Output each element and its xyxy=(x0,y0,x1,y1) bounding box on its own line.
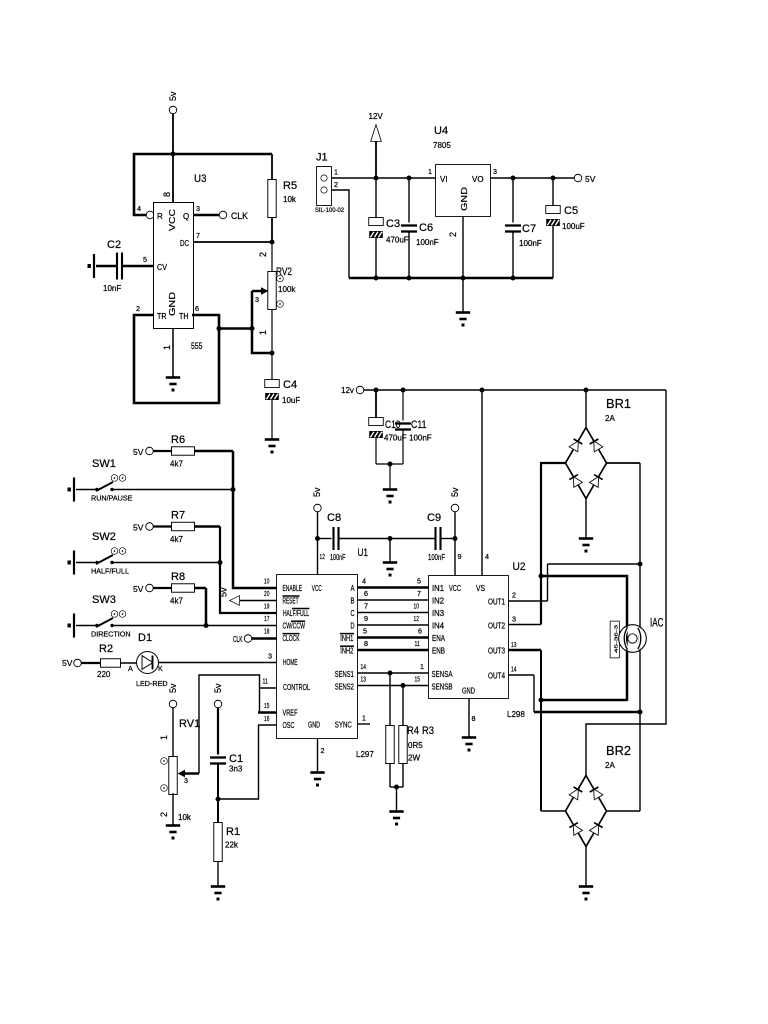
ground U2 xyxy=(462,738,476,752)
svg-text:11: 11 xyxy=(415,639,420,648)
svg-text:SENSA: SENSA xyxy=(432,670,454,679)
svg-text:CW/CCW: CW/CCW xyxy=(283,622,306,631)
junction GND rail xyxy=(461,276,466,281)
wire BR1 left xyxy=(541,462,566,464)
capacitor C10 xyxy=(369,418,383,438)
wire OUT3 to BR2 left xyxy=(540,650,542,811)
svg-text:CLK: CLK xyxy=(233,635,243,644)
svg-text:10k: 10k xyxy=(283,195,297,204)
svg-text:HALF/FULL: HALF/FULL xyxy=(283,609,309,618)
svg-text:7: 7 xyxy=(364,602,368,611)
svg-text:22k: 22k xyxy=(225,841,239,850)
wire OUT4 xyxy=(508,674,534,676)
junction OUT1/BR1/motor xyxy=(638,562,643,567)
wire motor right side xyxy=(639,564,641,712)
terminal 5V C1 xyxy=(215,701,222,708)
ground C4 xyxy=(265,440,279,454)
wire C9 to 5V xyxy=(441,538,456,540)
svg-text:R8: R8 xyxy=(171,571,185,583)
svg-text:5v: 5v xyxy=(312,487,322,497)
wire to C4 xyxy=(271,353,273,380)
svg-text:5V: 5V xyxy=(133,447,144,457)
svg-text:R3: R3 xyxy=(422,725,434,737)
terminal mark RV2 top xyxy=(277,276,283,282)
svg-text:C1: C1 xyxy=(229,753,243,765)
svg-text:12: 12 xyxy=(320,552,325,561)
svg-text:220: 220 xyxy=(97,670,111,679)
svg-text:10k: 10k xyxy=(178,813,192,822)
wire to C7 xyxy=(512,178,514,223)
svg-text:OUT4: OUT4 xyxy=(488,672,506,681)
junction VS riser xyxy=(480,388,485,393)
svg-text:100nF: 100nF xyxy=(416,238,439,247)
svg-text:K: K xyxy=(158,664,163,673)
svg-text:BR1: BR1 xyxy=(606,396,631,411)
svg-text:4k7: 4k7 xyxy=(170,460,183,469)
svg-text:3: 3 xyxy=(255,295,259,304)
svg-text:C3: C3 xyxy=(386,218,400,230)
svg-text:OUT3: OUT3 xyxy=(488,647,505,656)
wire C2 to U3 CV pin 5 xyxy=(123,265,154,267)
resistor R2 xyxy=(101,659,120,667)
wire BR1 to ground xyxy=(585,498,587,538)
wire C1 to R1 xyxy=(217,764,219,824)
wire R7 to drop xyxy=(194,525,220,528)
svg-text:VI: VI xyxy=(440,175,448,184)
svg-text:3: 3 xyxy=(493,167,497,176)
wire 5V terminal to U3 VCC pin 8 xyxy=(172,114,174,203)
svg-text:ENABLE: ENABLE xyxy=(283,584,303,593)
svg-text:2W: 2W xyxy=(408,754,420,763)
terminal 5V C8 xyxy=(314,505,321,512)
svg-text:4k7: 4k7 xyxy=(170,535,183,544)
svg-text:7805: 7805 xyxy=(433,141,451,150)
svg-text:10uF: 10uF xyxy=(282,396,300,405)
svg-text:U1: U1 xyxy=(358,547,369,559)
wire U1 GND pin 2 xyxy=(317,738,319,772)
svg-text:2: 2 xyxy=(512,591,516,600)
junction R6/SW1 xyxy=(231,487,236,492)
capacitor C9 xyxy=(436,527,441,550)
terminal mark SW1 a xyxy=(112,475,118,481)
svg-text:2: 2 xyxy=(448,232,458,237)
svg-text:1: 1 xyxy=(334,168,338,177)
wire to C8 xyxy=(318,538,332,540)
svg-text:4: 4 xyxy=(485,552,489,561)
terminal CLK in xyxy=(245,635,252,642)
junction C7 top xyxy=(511,176,516,181)
svg-text:OUT1: OUT1 xyxy=(488,598,505,607)
wire R4/R3 join xyxy=(390,786,403,788)
switch SW2 xyxy=(95,555,113,564)
svg-text:GND: GND xyxy=(459,187,469,211)
ground RV1 xyxy=(166,826,180,840)
svg-text:IN2: IN2 xyxy=(432,597,444,606)
capacitor C2 xyxy=(117,253,122,280)
wire to BR2 right xyxy=(639,712,641,811)
svg-text:5V: 5V xyxy=(585,174,596,184)
wire rail to U3 pin 4 R xyxy=(134,153,146,215)
wire BR2 right xyxy=(606,810,640,812)
resistor R5 xyxy=(268,180,276,217)
wire C3 to rail xyxy=(375,238,377,278)
svg-text:R5: R5 xyxy=(283,180,297,192)
svg-text:CLOCK: CLOCK xyxy=(283,634,300,643)
junction C10/C11 ground xyxy=(388,462,393,467)
wire SENS1 to SENSA xyxy=(357,672,429,674)
resistor R1 xyxy=(214,823,222,861)
ground R1 xyxy=(211,887,225,901)
wire rail to R5 xyxy=(271,154,273,180)
svg-text:SW2: SW2 xyxy=(92,531,116,543)
ground U4 xyxy=(456,313,470,327)
junction OUT4/motor xyxy=(638,710,643,715)
svg-text:20: 20 xyxy=(264,589,269,598)
wire OUT4 riser xyxy=(533,675,535,712)
ground R4/R3 xyxy=(389,812,403,826)
svg-text:R4: R4 xyxy=(407,725,419,737)
wire C5 to rail xyxy=(552,226,554,278)
svg-text:SW1: SW1 xyxy=(92,458,116,470)
svg-text:6: 6 xyxy=(364,589,368,598)
svg-text:9: 9 xyxy=(458,552,462,561)
terminal mark SW3 b xyxy=(120,611,126,617)
svg-text:2: 2 xyxy=(258,252,268,257)
svg-text:CLK: CLK xyxy=(231,211,248,221)
capacitor C4 xyxy=(265,380,279,400)
svg-text:C11: C11 xyxy=(411,419,427,431)
potentiometer RV2 body xyxy=(268,272,276,309)
junction R7/SW2 xyxy=(218,560,223,565)
terminal 5V R8 xyxy=(146,585,153,592)
wire C10 bottom xyxy=(375,438,377,464)
junction RV2/C4 xyxy=(270,351,275,356)
IC U1 L297 body xyxy=(277,575,357,738)
junction OUT2/motor top xyxy=(539,574,544,579)
svg-text:2: 2 xyxy=(321,746,325,755)
svg-text:D: D xyxy=(351,622,355,631)
wire BR1 left riser xyxy=(540,462,542,625)
wire OUT4 to BR2 right net xyxy=(534,711,640,714)
svg-text:5: 5 xyxy=(417,577,421,586)
svg-text:5V: 5V xyxy=(133,584,144,594)
wire to decoupling ground xyxy=(389,539,391,563)
wire PSU ground rail xyxy=(349,277,553,279)
stub U1 VREF pin 15 xyxy=(258,711,277,714)
junction OUT3/motor xyxy=(539,698,544,703)
input stub C2 xyxy=(88,254,95,278)
wire reset marker to U1 pin 20 xyxy=(240,600,278,602)
svg-text:C4: C4 xyxy=(283,379,297,391)
svg-text:1: 1 xyxy=(162,345,172,350)
svg-text:BR2: BR2 xyxy=(606,743,631,758)
svg-text:OUT2: OUT2 xyxy=(488,622,505,631)
svg-text:SYNC: SYNC xyxy=(335,721,352,730)
svg-text:0R5: 0R5 xyxy=(408,741,423,750)
wire to C10 xyxy=(375,390,377,418)
RV1 wiper arrow xyxy=(181,772,199,775)
wire CLK to U1 pin 18 xyxy=(252,637,278,640)
stub U1 OSC pin 16 xyxy=(258,724,277,726)
wire C11 bottom xyxy=(402,430,404,465)
wire BR2 left xyxy=(541,810,566,812)
svg-text:16: 16 xyxy=(264,714,269,723)
svg-text:100nF: 100nF xyxy=(330,553,346,562)
svg-text:5v: 5v xyxy=(168,91,178,101)
wire U4 GND pin to ground xyxy=(462,216,464,312)
ground C8/C9 xyxy=(383,563,397,577)
svg-text:DC: DC xyxy=(180,239,189,248)
power arrow 12V xyxy=(375,140,377,178)
svg-text:VCC: VCC xyxy=(449,584,461,593)
IC U2 L298 body xyxy=(429,576,508,698)
wire SENS2 to R3 xyxy=(402,686,404,727)
wire R2 to D1 xyxy=(120,662,137,664)
svg-text:6: 6 xyxy=(418,627,422,636)
svg-text:12v: 12v xyxy=(341,386,354,395)
svg-text:7: 7 xyxy=(196,231,200,240)
terminal 5V out xyxy=(575,175,582,182)
wire OUT1 riser xyxy=(547,564,549,601)
junction C8 left xyxy=(315,536,320,541)
junction C10 xyxy=(374,388,379,393)
wire U3 DC to R5/RV2 node xyxy=(193,241,272,243)
svg-text:8: 8 xyxy=(162,192,172,197)
svg-text:5: 5 xyxy=(143,255,147,264)
svg-text:C7: C7 xyxy=(522,223,536,235)
wire motor phase A top xyxy=(541,576,627,701)
terminal 5V R7 xyxy=(146,523,153,530)
wire to C6 xyxy=(408,178,410,223)
svg-text:C: C xyxy=(351,609,355,618)
svg-text:45-36-3: 45-36-3 xyxy=(613,624,618,653)
svg-text:SW3: SW3 xyxy=(92,594,116,606)
ground C10/C11 xyxy=(383,490,397,504)
LED D1 xyxy=(137,652,158,673)
wire RV1 wiper to U1 VREF xyxy=(199,675,260,774)
wire R8 to drop xyxy=(194,587,206,590)
svg-text:100nF: 100nF xyxy=(409,434,432,443)
junction SENS2/R3 xyxy=(401,683,406,688)
svg-text:VCC: VCC xyxy=(312,584,322,593)
svg-text:3: 3 xyxy=(512,615,516,624)
svg-text:ENB: ENB xyxy=(432,647,445,656)
svg-text:1: 1 xyxy=(428,167,432,176)
wire J1 pin2 to ground rail xyxy=(331,190,349,278)
junction C6 bottom xyxy=(407,276,412,281)
wire U2 GND pin 8 xyxy=(468,698,470,737)
wire stub to SW3 xyxy=(76,625,96,627)
stub U1 SYNC pin 1 xyxy=(357,723,370,725)
svg-text:DIRECTION: DIRECTION xyxy=(91,630,131,639)
junction C3 bottom xyxy=(374,276,379,281)
wire R8 drop xyxy=(205,588,208,626)
input stub SW2 xyxy=(68,551,75,575)
wire RV2 pin 1 xyxy=(271,310,273,353)
svg-text:2: 2 xyxy=(159,812,169,817)
junction C7 bottom xyxy=(511,276,516,281)
ground U1 xyxy=(310,773,324,787)
wire R1 to ground xyxy=(217,861,219,886)
wire stub to SW2 xyxy=(76,562,96,564)
svg-text:7: 7 xyxy=(417,589,421,598)
svg-text:HOME: HOME xyxy=(283,658,298,667)
bridge rectifier BR2 xyxy=(566,776,607,847)
svg-text:4: 4 xyxy=(362,577,366,586)
svg-text:2A: 2A xyxy=(605,414,615,423)
svg-text:5V: 5V xyxy=(133,523,144,533)
wire to ground C10/C11 xyxy=(389,464,391,489)
svg-text:3n3: 3n3 xyxy=(229,765,243,774)
wire 12v to BR2 top xyxy=(586,390,666,776)
svg-text:GND: GND xyxy=(308,721,320,730)
svg-text:1: 1 xyxy=(258,330,268,335)
switch SW3 xyxy=(95,618,113,627)
svg-text:CONTROL: CONTROL xyxy=(283,683,310,692)
wire R4 bottom xyxy=(389,763,391,787)
wire A to IN1 xyxy=(357,586,429,589)
capacitor C5 xyxy=(546,206,560,226)
svg-text:Q: Q xyxy=(183,212,189,221)
wire R3 bottom xyxy=(402,763,404,787)
svg-text:3: 3 xyxy=(268,652,272,661)
bridge rectifier BR1 xyxy=(566,428,607,499)
resistor R6 xyxy=(172,447,194,455)
svg-text:R1: R1 xyxy=(226,826,240,838)
svg-text:12: 12 xyxy=(414,614,419,623)
svg-text:15: 15 xyxy=(415,675,420,684)
svg-text:C2: C2 xyxy=(107,239,121,251)
svg-text:SENS2: SENS2 xyxy=(335,683,354,692)
J1 pin circles xyxy=(321,175,327,181)
resistor R8 xyxy=(172,584,194,592)
svg-text:U3: U3 xyxy=(194,173,207,185)
svg-text:VS: VS xyxy=(476,584,485,593)
terminal mark SW1 b xyxy=(120,475,126,481)
svg-text:RV1: RV1 xyxy=(179,718,200,730)
wire SW1 to junction xyxy=(112,489,233,491)
svg-text:C8: C8 xyxy=(327,512,341,524)
svg-text:100uF: 100uF xyxy=(562,222,585,231)
svg-text:13: 13 xyxy=(511,640,516,649)
resistor R7 xyxy=(172,523,194,531)
svg-text:13: 13 xyxy=(361,675,366,684)
wire 12v to U2 VS pin 4 xyxy=(481,390,483,576)
terminal 5V (555 supply) xyxy=(170,107,177,114)
terminal mark RV2 bottom xyxy=(277,301,283,307)
svg-text:8: 8 xyxy=(472,714,476,723)
svg-text:R2: R2 xyxy=(99,643,113,655)
svg-text:IN1: IN1 xyxy=(432,584,444,593)
svg-text:C6: C6 xyxy=(419,222,433,234)
wire C4 to ground xyxy=(271,400,273,439)
svg-text:5v: 5v xyxy=(219,587,229,597)
svg-text:18: 18 xyxy=(264,627,269,636)
capacitor C8 xyxy=(334,527,339,550)
svg-text:C9: C9 xyxy=(427,512,441,524)
svg-text:LED-RED: LED-RED xyxy=(136,679,168,688)
svg-text:SENS1: SENS1 xyxy=(335,670,354,679)
wire VCC top rail xyxy=(133,153,272,156)
svg-text:J1: J1 xyxy=(316,152,328,164)
junction 12V/C3 xyxy=(374,176,379,181)
wire 5V to U2 VCC pin 9 xyxy=(454,512,456,576)
ground BR2 xyxy=(579,887,593,901)
junction C1/R1/OSC xyxy=(216,797,221,802)
wire J1 pin1 to U4 VI xyxy=(331,177,436,179)
RV2 wiper arrow xyxy=(252,290,265,293)
svg-text:4k7: 4k7 xyxy=(170,597,183,606)
junction DC node xyxy=(270,240,275,245)
svg-text:ENA: ENA xyxy=(432,634,446,643)
resistor R3 xyxy=(399,726,407,763)
svg-text:1: 1 xyxy=(420,662,424,671)
svg-text:C5: C5 xyxy=(564,205,578,217)
wire to C5 xyxy=(552,178,554,206)
svg-text:RV2: RV2 xyxy=(276,266,292,278)
svg-text:9: 9 xyxy=(364,614,368,623)
junction BR1 top xyxy=(584,388,589,393)
wire DC node to RV2 pin 2 xyxy=(271,242,273,272)
wire B to IN2 xyxy=(357,599,429,601)
junction C6 xyxy=(407,176,412,181)
wire D to IN4 xyxy=(357,624,429,626)
junction decoupling ground xyxy=(388,536,393,541)
svg-text:10nF: 10nF xyxy=(103,284,121,293)
svg-text:D1: D1 xyxy=(138,632,152,644)
svg-text:100nF: 100nF xyxy=(428,553,445,562)
junction R4/R3 ground xyxy=(394,785,399,790)
svg-text:TR: TR xyxy=(157,312,167,321)
svg-text:100k: 100k xyxy=(278,285,296,294)
svg-text:2: 2 xyxy=(334,180,338,189)
svg-text:INH1: INH1 xyxy=(340,634,353,643)
svg-text:470uF: 470uF xyxy=(386,236,409,245)
svg-text:SIL-100-02: SIL-100-02 xyxy=(315,207,344,214)
svg-text:CV: CV xyxy=(157,263,168,272)
junction R8/SW3 xyxy=(204,623,209,628)
svg-text:HALF/FULL: HALF/FULL xyxy=(91,567,129,576)
connector J1 body xyxy=(317,167,331,205)
wire stub to SW1 xyxy=(76,489,96,491)
svg-text:VO: VO xyxy=(472,175,484,184)
svg-text:4: 4 xyxy=(137,204,141,213)
svg-text:1: 1 xyxy=(159,735,169,740)
wire 12v to BR1 top xyxy=(585,390,587,428)
terminal 5V C9 xyxy=(452,505,459,512)
wire BR2 to ground xyxy=(585,846,587,886)
regulator U4 body xyxy=(436,165,490,216)
svg-text:U4: U4 xyxy=(434,125,448,137)
junction TH loop xyxy=(217,326,222,331)
svg-text:A: A xyxy=(351,584,356,593)
ground U3 xyxy=(166,378,180,392)
wire OSC to C1/R1 node xyxy=(218,725,259,799)
wire to ground R4/R3 xyxy=(396,787,398,811)
wire C10/C11 join xyxy=(376,463,403,465)
wire TH branch to RV2 wiper xyxy=(219,327,252,330)
svg-text:L298: L298 xyxy=(507,710,525,719)
terminal 5V R6 xyxy=(146,448,153,455)
wire terminal to R8 xyxy=(154,587,173,589)
svg-text:VCC: VCC xyxy=(167,209,177,231)
wire INH2 to ENB xyxy=(357,649,429,652)
svg-text:100nF: 100nF xyxy=(519,239,542,248)
wire C7 to rail xyxy=(512,232,514,279)
svg-text:B: B xyxy=(351,597,355,606)
wire motor phase B bottom xyxy=(541,699,627,702)
svg-text:L297: L297 xyxy=(356,750,374,759)
